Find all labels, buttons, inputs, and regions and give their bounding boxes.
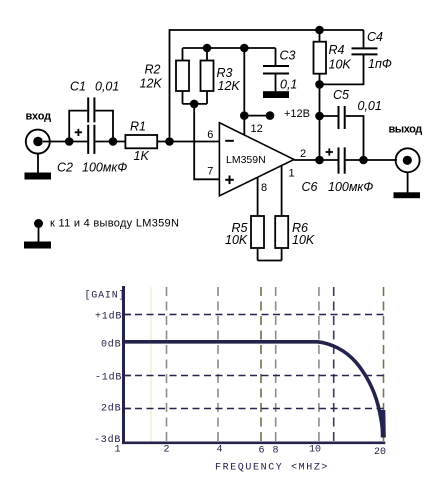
svg-text:выход: выход <box>389 124 423 136</box>
svg-text:10K: 10K <box>225 233 248 247</box>
svg-text:+12В: +12В <box>284 108 310 120</box>
svg-text:C4: C4 <box>367 30 383 44</box>
svg-text:R2: R2 <box>145 63 161 77</box>
svg-text:12: 12 <box>251 123 263 135</box>
svg-text:0,01: 0,01 <box>95 79 119 93</box>
svg-text:10K: 10K <box>292 233 315 247</box>
svg-text:20: 20 <box>374 447 386 458</box>
svg-text:[GAIN]: [GAIN] <box>85 290 126 302</box>
svg-text:100мкФ: 100мкФ <box>82 161 127 175</box>
svg-text:8: 8 <box>261 182 267 194</box>
svg-text:2dB: 2dB <box>101 403 121 415</box>
svg-text:C5: C5 <box>333 88 349 102</box>
svg-text:C1: C1 <box>70 79 86 93</box>
svg-text:12K: 12K <box>218 79 241 93</box>
svg-text:0dB: 0dB <box>101 339 121 351</box>
svg-text:4: 4 <box>217 445 223 456</box>
svg-text:12K: 12K <box>140 77 163 91</box>
svg-text:2: 2 <box>164 445 170 456</box>
svg-text:1пФ: 1пФ <box>368 57 392 71</box>
svg-text:10: 10 <box>309 445 321 456</box>
svg-text:C2: C2 <box>57 161 73 175</box>
svg-text:R1: R1 <box>130 120 146 134</box>
svg-text:1: 1 <box>289 168 295 180</box>
svg-text:к 11 и 4 выводу LM359N: к 11 и 4 выводу LM359N <box>50 218 179 230</box>
svg-text:C6: C6 <box>302 180 318 194</box>
svg-text:6: 6 <box>259 446 265 457</box>
svg-text:10K: 10K <box>329 58 352 72</box>
svg-text:R3: R3 <box>217 66 233 80</box>
svg-text:C3: C3 <box>280 48 296 62</box>
svg-text:R4: R4 <box>329 43 345 57</box>
svg-text:1: 1 <box>115 445 121 456</box>
svg-text:7: 7 <box>207 166 213 178</box>
svg-text:LM359N: LM359N <box>226 154 266 166</box>
svg-text:6: 6 <box>207 129 213 141</box>
svg-text:вход: вход <box>26 111 52 123</box>
svg-text:0,01: 0,01 <box>358 99 382 113</box>
svg-text:+1dB: +1dB <box>95 311 122 323</box>
svg-text:8: 8 <box>273 446 279 457</box>
svg-text:0,1: 0,1 <box>280 77 297 91</box>
svg-text:100мкФ: 100мкФ <box>328 180 373 194</box>
svg-text:1K: 1K <box>134 149 150 163</box>
svg-text:FREQUENCY <MHZ>: FREQUENCY <MHZ> <box>215 463 329 474</box>
svg-text:2: 2 <box>300 148 306 160</box>
svg-text:-1dB: -1dB <box>95 372 122 384</box>
